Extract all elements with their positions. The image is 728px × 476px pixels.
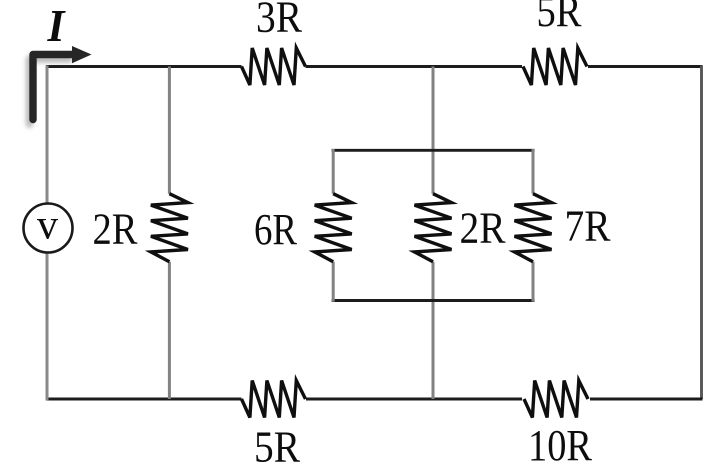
wire top rail [46,65,703,68]
resistor 5R bottom [242,381,306,418]
svg-text:5R: 5R [537,0,583,36]
parallel box bottom rail [332,299,535,302]
svg-text:2R: 2R [93,205,139,254]
wire box right [532,149,535,302]
svg-text:7R: 7R [565,201,612,250]
resistor 2R (left branch) [151,194,188,262]
resistor 7R [515,194,552,262]
wire 2R branch [168,67,171,400]
voltage source V1 [24,204,73,253]
svg-text:I: I [47,0,67,51]
svg-text:v: v [37,203,58,249]
resistor 2R (middle branch) [415,194,452,262]
resistor 10R [524,381,588,418]
wire middle branch [432,67,435,400]
wire bottom rail [46,398,703,401]
resistor 6R [315,194,352,262]
svg-text:2R: 2R [460,203,507,252]
svg-text:5R: 5R [254,423,301,472]
svg-text:10R: 10R [528,421,593,470]
wire box left [332,149,335,302]
svg-text:3R: 3R [256,0,303,42]
wire left edge [46,66,49,401]
wire right edge [700,66,703,400]
current arrow I [30,59,70,124]
parallel box top rail [332,149,535,152]
resistor 3R [242,48,306,85]
resistor 5R top [523,48,587,85]
svg-text:6R: 6R [254,205,298,254]
